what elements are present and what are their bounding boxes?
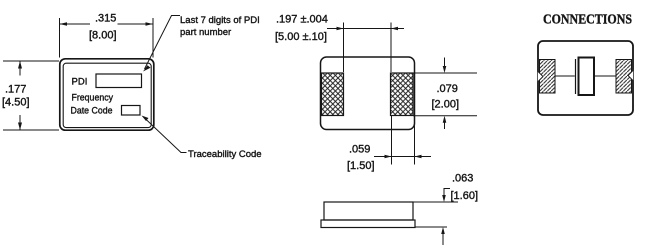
svg-text:.177: .177 — [5, 84, 26, 96]
dimension .315 [8.00] — [60, 13, 154, 58]
side view base — [321, 220, 415, 228]
svg-text:PDI: PDI — [72, 77, 88, 88]
svg-text:.197 ±.004: .197 ±.004 — [276, 14, 328, 26]
connections right pad (hatched) — [616, 60, 633, 94]
svg-text:[5.00 ±.10]: [5.00 ±.10] — [275, 31, 327, 43]
dimension .197 +/-.004 [5.00 +/-.10] — [275, 14, 404, 73]
wire crystal to right pad — [595, 75, 617, 77]
svg-text:.063: .063 — [452, 173, 473, 185]
callout last 7 digits of PDI part number — [143, 15, 260, 72]
svg-text:.059: .059 — [349, 144, 370, 156]
title CONNECTIONS — [543, 13, 632, 28]
package top view inner lid edge — [63, 63, 151, 127]
svg-text:Date Code: Date Code — [71, 106, 113, 117]
right terminal pad (crosshatched) — [391, 73, 414, 116]
dimension .177 [4.50] — [2, 61, 59, 130]
label Date Code — [71, 106, 113, 117]
dimension .063 [1.60] — [413, 173, 478, 246]
svg-text:[1.60]: [1.60] — [451, 190, 479, 202]
svg-text:part number: part number — [180, 27, 231, 38]
callout traceability code — [142, 116, 262, 161]
wire left pad to crystal — [555, 75, 575, 77]
svg-text:[4.50]: [4.50] — [2, 97, 30, 109]
label Frequency — [72, 93, 114, 104]
svg-text:.079: .079 — [437, 83, 458, 95]
left terminal pad (crosshatched) — [322, 73, 344, 116]
dimension .059 [1.50] — [347, 116, 431, 172]
traceability code marking box — [122, 106, 141, 116]
svg-text:Last 7 digits of PDI: Last 7 digits of PDI — [180, 15, 260, 26]
package top view outer body — [60, 59, 154, 130]
svg-text:Frequency: Frequency — [72, 93, 114, 104]
crystal electrode plate — [575, 59, 577, 94]
connections package outline — [538, 41, 633, 115]
svg-text:[1.50]: [1.50] — [347, 160, 375, 172]
part number marking box — [96, 74, 142, 88]
svg-text:Traceability Code: Traceability Code — [188, 149, 262, 160]
svg-text:CONNECTIONS: CONNECTIONS — [543, 13, 632, 28]
connections left pad (hatched) — [538, 60, 555, 94]
svg-text:[2.00]: [2.00] — [432, 99, 460, 111]
side view body — [324, 202, 413, 220]
land pattern view package outline — [321, 57, 415, 130]
label PDI — [72, 77, 88, 88]
svg-text:.315: .315 — [95, 13, 116, 25]
svg-text:[8.00]: [8.00] — [89, 30, 117, 42]
crystal element — [579, 58, 595, 96]
dimension .079 [2.00] — [413, 58, 477, 130]
